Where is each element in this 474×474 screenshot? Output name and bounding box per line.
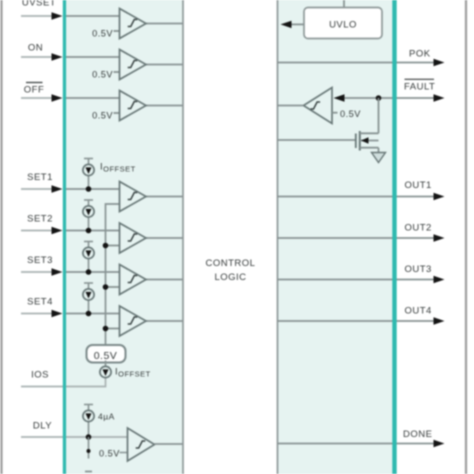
svg-text:UVLO: UVLO: [329, 20, 357, 31]
svg-text:0.5V: 0.5V: [94, 350, 118, 362]
svg-text:OUT3: OUT3: [405, 264, 432, 275]
svg-text:0.5V: 0.5V: [92, 111, 113, 121]
svg-text:ON: ON: [28, 43, 43, 54]
svg-text:OUT2: OUT2: [405, 223, 432, 234]
svg-text:0.5V: 0.5V: [99, 449, 120, 459]
svg-text:4µA: 4µA: [98, 412, 115, 422]
svg-text:SET1: SET1: [27, 172, 53, 183]
svg-text:0.5V: 0.5V: [340, 109, 361, 119]
svg-text:UVSET: UVSET: [22, 0, 56, 9]
svg-text:OFF: OFF: [24, 85, 45, 96]
svg-text:0.5V: 0.5V: [92, 29, 113, 39]
svg-text:0.5V: 0.5V: [92, 70, 113, 80]
svg-text:OUT1: OUT1: [405, 180, 432, 191]
svg-text:FAULT: FAULT: [404, 81, 435, 92]
svg-text:POK: POK: [409, 48, 431, 59]
svg-text:IOS: IOS: [31, 370, 49, 381]
svg-text:SET4: SET4: [27, 297, 53, 308]
svg-text:SET2: SET2: [27, 214, 53, 225]
svg-text:IOFFSET: IOFFSET: [100, 162, 136, 174]
svg-text:DONE: DONE: [403, 429, 432, 440]
svg-text:CONTROL: CONTROL: [206, 258, 256, 269]
svg-text:IOFFSET: IOFFSET: [115, 367, 151, 379]
svg-text:SET3: SET3: [27, 255, 53, 266]
svg-text:DLY: DLY: [33, 421, 52, 432]
svg-text:OUT4: OUT4: [405, 306, 432, 317]
svg-text:LOGIC: LOGIC: [214, 272, 246, 283]
